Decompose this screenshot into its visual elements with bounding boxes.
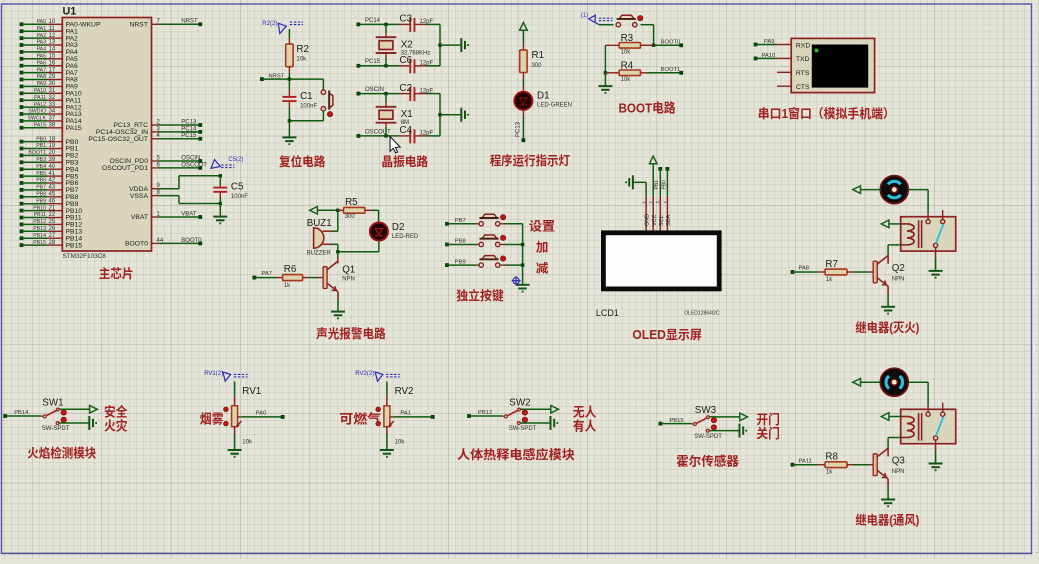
svg-text:PA8: PA8 bbox=[799, 266, 810, 272]
pot bottom lead bbox=[234, 427, 236, 434]
wire net PB6 pin 42 bbox=[20, 181, 24, 185]
svg-text:火焰检测模块: 火焰检测模块 bbox=[27, 445, 96, 460]
resistor R6 1k bbox=[252, 276, 256, 280]
wire net PA5 pin 15 bbox=[20, 57, 24, 61]
svg-text:PA15: PA15 bbox=[34, 123, 46, 129]
svg-text:霍尔传感器: 霍尔传感器 bbox=[676, 454, 739, 469]
svg-text:22: 22 bbox=[49, 212, 56, 218]
wire net PA6 pin 16 bbox=[20, 64, 24, 68]
wire net OSCIN pin 5 bbox=[152, 160, 159, 162]
LED D1 LED-GREEN bbox=[514, 92, 532, 110]
relay coil bbox=[907, 417, 914, 438]
transistor Q3 NPN bbox=[873, 454, 877, 476]
svg-text:OLED显示屏: OLED显示屏 bbox=[632, 328, 702, 342]
collector wire bbox=[887, 448, 889, 456]
svg-text:PA8: PA8 bbox=[37, 74, 47, 80]
wire net SWDIO pin 34 bbox=[20, 112, 24, 116]
svg-text:PA10: PA10 bbox=[34, 88, 46, 94]
svg-text:OSCIN: OSCIN bbox=[181, 155, 200, 161]
wire net PA4 pin 14 bbox=[20, 50, 24, 54]
svg-text:D1: D1 bbox=[537, 91, 550, 102]
svg-text:42: 42 bbox=[49, 178, 56, 184]
svg-text:BOOT0: BOOT0 bbox=[125, 241, 148, 248]
BOOT select button bbox=[599, 24, 613, 26]
svg-text:C6: C6 bbox=[400, 55, 413, 66]
svg-text:PB15: PB15 bbox=[33, 240, 46, 246]
svg-text:PC14: PC14 bbox=[365, 18, 381, 24]
svg-text:PC15: PC15 bbox=[365, 59, 381, 65]
svg-text:人体热释电感应模块: 人体热释电感应模块 bbox=[457, 447, 575, 462]
ground of alarm circuit bbox=[331, 312, 345, 319]
resistor R4 10k bbox=[605, 72, 619, 74]
svg-text:R6: R6 bbox=[284, 264, 297, 275]
wire net PB9 pin 46 bbox=[20, 202, 24, 206]
svg-text:43: 43 bbox=[49, 185, 56, 191]
resistor R2 10k bbox=[288, 29, 290, 38]
capacitor C1 100nF bbox=[288, 79, 290, 90]
wire motor to relay bbox=[909, 381, 929, 383]
ground below relay contact bbox=[929, 464, 943, 471]
node PC15 bbox=[357, 64, 361, 68]
wire net PB14 pin 27 bbox=[20, 236, 24, 240]
wire net BOOT1 pin 20 bbox=[20, 154, 24, 158]
push button K2 bbox=[479, 242, 483, 246]
wire motor to relay bbox=[909, 189, 929, 191]
svg-text:12: 12 bbox=[49, 33, 56, 39]
svg-text:X1: X1 bbox=[401, 109, 413, 120]
svg-text:25: 25 bbox=[49, 219, 56, 225]
svg-text:28: 28 bbox=[49, 240, 56, 246]
wire net PA10 to TXD bbox=[754, 57, 758, 61]
wire net PA1 pin 11 bbox=[20, 29, 24, 33]
capacitor C6 12pF bbox=[399, 65, 411, 67]
wire net SWCLK pin 37 bbox=[20, 119, 24, 123]
crystal X1 8M bbox=[385, 94, 387, 103]
svg-text:R1: R1 bbox=[532, 50, 545, 61]
power terminal left of R5 bbox=[310, 207, 318, 215]
svg-text:PB3: PB3 bbox=[36, 157, 46, 163]
svg-text:10k: 10k bbox=[621, 50, 632, 56]
throw 1 wire to power arrow bbox=[521, 408, 551, 410]
svg-text:可燃气: 可燃气 bbox=[339, 411, 381, 426]
wire NRST to reset button bbox=[289, 78, 323, 80]
svg-text:NPN: NPN bbox=[892, 469, 905, 475]
svg-text:D2: D2 bbox=[392, 222, 405, 233]
pin CTS stub bbox=[777, 85, 791, 87]
svg-text:8M: 8M bbox=[401, 120, 409, 126]
capacitor C2 12pF bbox=[399, 93, 411, 95]
svg-text:PA7: PA7 bbox=[37, 67, 47, 73]
svg-text:GND: GND bbox=[645, 214, 651, 226]
wire button to C1 bottom bbox=[322, 111, 324, 121]
svg-text:16: 16 bbox=[49, 60, 56, 66]
blue probe label C5(2) bbox=[211, 160, 220, 169]
resistor R5 300 bbox=[336, 209, 339, 212]
LED D2 LED-RED bbox=[370, 222, 388, 240]
ground of BOOT circuit bbox=[604, 73, 606, 86]
transistor Q1 NPN bbox=[337, 252, 339, 258]
wire net PA9 pin 30 bbox=[20, 85, 24, 89]
wiper wire to PA0 bbox=[238, 416, 242, 418]
svg-text:PB12: PB12 bbox=[33, 219, 46, 225]
wire R3 to R4 rail bbox=[604, 45, 606, 73]
svg-text:39: 39 bbox=[49, 157, 56, 163]
common key rail bbox=[522, 224, 524, 284]
capacitor C4 12pF bbox=[399, 135, 411, 137]
pot wiper arrow bbox=[389, 421, 394, 426]
svg-text:32.768KHz: 32.768KHz bbox=[401, 50, 431, 56]
svg-text:10k: 10k bbox=[242, 440, 253, 446]
wire net PB12 pin 25 bbox=[20, 223, 24, 227]
wire net PB14 bbox=[3, 414, 7, 418]
ground of reset circuit bbox=[282, 137, 296, 144]
ground below relay contact bbox=[929, 271, 943, 278]
ground below RV2 bbox=[380, 450, 394, 457]
svg-text:R2: R2 bbox=[296, 44, 309, 55]
wire net PA8 pin 29 bbox=[20, 78, 24, 82]
svg-text:1k: 1k bbox=[826, 470, 833, 476]
svg-text:PA3: PA3 bbox=[37, 40, 47, 46]
svg-text:开门: 开门 bbox=[756, 412, 780, 427]
mouse cursor bbox=[390, 137, 400, 154]
wire relay common to ground bbox=[935, 440, 937, 450]
OLED pin stubs bbox=[645, 196, 647, 231]
wire net PB7 pin 43 bbox=[20, 188, 24, 192]
svg-text:17: 17 bbox=[49, 67, 56, 73]
wire net PB10 pin 21 bbox=[20, 209, 24, 213]
svg-text:PA2: PA2 bbox=[37, 33, 47, 39]
wire net PB11 pin 22 bbox=[20, 216, 24, 220]
svg-text:300: 300 bbox=[345, 214, 356, 220]
svg-text:PB1: PB1 bbox=[654, 180, 660, 190]
svg-text:PB10: PB10 bbox=[33, 205, 46, 211]
svg-text:PC15: PC15 bbox=[181, 133, 197, 139]
svg-text:SW3: SW3 bbox=[695, 405, 717, 416]
relay contact pins bbox=[926, 412, 930, 416]
svg-text:NRST: NRST bbox=[181, 19, 198, 25]
node SCL bbox=[658, 167, 662, 171]
relay switch blade bbox=[936, 417, 943, 436]
svg-text:PA15: PA15 bbox=[66, 125, 82, 132]
relay coil top lead to power bbox=[901, 416, 907, 418]
svg-text:13: 13 bbox=[49, 40, 56, 46]
svg-text:10k: 10k bbox=[621, 77, 632, 83]
wire net PB13 pin 26 bbox=[20, 229, 24, 233]
svg-text:PB9: PB9 bbox=[36, 198, 46, 204]
svg-text:复位电路: 复位电路 bbox=[279, 154, 326, 169]
emitter wire to ground bbox=[887, 286, 889, 294]
throw 1 wire to power arrow bbox=[59, 408, 89, 410]
wire net PB15 bbox=[659, 422, 663, 426]
svg-text:BOOT0: BOOT0 bbox=[181, 238, 202, 244]
svg-text:PA1: PA1 bbox=[37, 26, 47, 32]
switch SW1 SW-SPDT bbox=[43, 415, 46, 418]
chip U1 STM32F103C8 bbox=[62, 18, 151, 252]
svg-text:20: 20 bbox=[49, 150, 56, 156]
svg-text:串口1窗口（模拟手机端）: 串口1窗口（模拟手机端） bbox=[758, 106, 895, 121]
svg-text:RTS: RTS bbox=[796, 70, 810, 77]
svg-text:加: 加 bbox=[536, 241, 549, 255]
svg-text:OSCOUT: OSCOUT bbox=[181, 162, 207, 168]
ground below RV1 bbox=[228, 450, 242, 457]
svg-text:声光报警电路: 声光报警电路 bbox=[316, 326, 386, 341]
svg-text:RV2: RV2 bbox=[395, 386, 414, 397]
svg-text:PB6: PB6 bbox=[36, 178, 46, 184]
svg-text:火灾: 火灾 bbox=[104, 419, 128, 434]
resistor R7 1k bbox=[791, 270, 795, 274]
svg-text:PC14: PC14 bbox=[181, 126, 197, 132]
virtual terminal window bbox=[791, 38, 874, 92]
svg-text:VCC: VCC bbox=[652, 214, 658, 226]
svg-text:SW-SPDT: SW-SPDT bbox=[694, 434, 722, 440]
resistor R8 1k bbox=[791, 463, 795, 467]
svg-text:PB11: PB11 bbox=[34, 212, 46, 218]
power terminal left of motor bbox=[853, 186, 861, 194]
power terminal VCC bbox=[649, 156, 657, 164]
svg-text:PA11: PA11 bbox=[799, 458, 812, 464]
svg-text:独立按键: 独立按键 bbox=[456, 288, 504, 303]
svg-text:SWCLK: SWCLK bbox=[28, 116, 47, 122]
resistor R1 300 bbox=[522, 30, 524, 43]
pot adjust dots bbox=[224, 407, 229, 412]
svg-text:41: 41 bbox=[49, 171, 56, 177]
wire net BOOT0 pin 44 bbox=[152, 242, 159, 244]
wire net PA3 pin 13 bbox=[20, 43, 24, 47]
svg-text:R2(2): R2(2) bbox=[262, 21, 277, 27]
node NRST bbox=[260, 77, 264, 81]
svg-text:PA0: PA0 bbox=[256, 411, 267, 417]
svg-text:PB1: PB1 bbox=[36, 143, 46, 149]
svg-text:R7: R7 bbox=[825, 259, 838, 270]
node OSCIN bbox=[357, 92, 361, 96]
svg-text:关门: 关门 bbox=[756, 426, 780, 441]
svg-text:PA0: PA0 bbox=[37, 19, 47, 25]
svg-text:X2: X2 bbox=[401, 39, 413, 50]
svg-text:PA6: PA6 bbox=[37, 60, 47, 66]
ground of keys bbox=[516, 285, 530, 292]
ground below Q3 bbox=[881, 500, 895, 507]
svg-text:Q3: Q3 bbox=[892, 456, 906, 467]
svg-text:C4: C4 bbox=[400, 125, 413, 136]
wire D2 to collector rail bbox=[378, 241, 380, 252]
pin RTS stub bbox=[777, 71, 791, 73]
wire net PC14 pin 3 bbox=[152, 131, 159, 133]
svg-text:300: 300 bbox=[532, 63, 543, 69]
node SDA bbox=[666, 167, 670, 171]
svg-text:PB13: PB13 bbox=[33, 226, 46, 232]
relay contact pins bbox=[926, 220, 930, 224]
svg-text:11: 11 bbox=[49, 26, 56, 32]
svg-text:RV2(2): RV2(2) bbox=[355, 371, 374, 377]
wire to ground rail bbox=[439, 94, 441, 136]
pot bottom lead bbox=[386, 427, 388, 434]
svg-text:PB7: PB7 bbox=[36, 185, 46, 191]
relay RL of Q3 bbox=[901, 409, 956, 443]
svg-text:PA7: PA7 bbox=[262, 271, 273, 277]
svg-text:RV1: RV1 bbox=[242, 386, 261, 397]
motor of Q3 relay bbox=[880, 368, 908, 396]
wire net PB7 bbox=[445, 222, 449, 226]
svg-text:44: 44 bbox=[157, 238, 164, 244]
svg-text:主芯片: 主芯片 bbox=[99, 266, 134, 281]
svg-text:R8: R8 bbox=[825, 452, 838, 463]
power terminal left of motor bbox=[853, 378, 861, 386]
svg-text:15: 15 bbox=[49, 54, 56, 60]
svg-text:烟雾: 烟雾 bbox=[200, 411, 224, 426]
pot adjust dots bbox=[376, 407, 381, 412]
wire button to BOOT0 node bbox=[641, 24, 654, 26]
resistor R3 10k bbox=[605, 44, 619, 46]
svg-text:SW2: SW2 bbox=[509, 398, 530, 409]
svg-text:PB15: PB15 bbox=[66, 242, 83, 249]
throw 2 wire to rail terminal bbox=[709, 430, 738, 432]
svg-text:1k: 1k bbox=[826, 277, 833, 283]
svg-text:C3: C3 bbox=[400, 14, 413, 25]
svg-text:PB4: PB4 bbox=[36, 164, 46, 170]
svg-text:PB0: PB0 bbox=[36, 136, 46, 142]
relay coil top lead to power bbox=[901, 223, 907, 225]
relay coil bbox=[907, 224, 914, 245]
svg-text:33: 33 bbox=[49, 102, 56, 108]
wire net OSCOUT pin 6 bbox=[152, 167, 159, 169]
svg-text:SDA: SDA bbox=[666, 214, 672, 226]
wire relay common to ground bbox=[935, 248, 937, 258]
svg-text:C1: C1 bbox=[300, 91, 313, 102]
OLED screen body bbox=[603, 233, 719, 289]
svg-text:CTS: CTS bbox=[796, 84, 810, 91]
svg-text:PA11: PA11 bbox=[34, 95, 46, 101]
svg-text:C5(2): C5(2) bbox=[228, 157, 243, 163]
LCD1 OLED module bbox=[645, 182, 647, 195]
svg-text:无人: 无人 bbox=[573, 404, 597, 419]
reset push button bbox=[321, 90, 325, 94]
svg-text:45: 45 bbox=[49, 192, 56, 198]
svg-text:32: 32 bbox=[49, 95, 56, 101]
wire net VBAT pin 1 bbox=[152, 216, 159, 218]
relay coil bottom lead bbox=[901, 244, 907, 246]
wire net PB5 pin 41 bbox=[20, 174, 24, 178]
svg-text:19: 19 bbox=[49, 143, 56, 149]
transistor Q2 NPN bbox=[873, 261, 877, 283]
wiper wire to PA1 bbox=[390, 416, 394, 418]
svg-text:继电器(灭火): 继电器(灭火) bbox=[855, 320, 919, 335]
svg-text:LED-GREEN: LED-GREEN bbox=[537, 102, 572, 108]
blue origin marker bbox=[512, 276, 521, 285]
svg-text:18: 18 bbox=[49, 136, 56, 142]
wire net PB3 pin 39 bbox=[20, 160, 24, 164]
ground left of OLED bbox=[626, 175, 633, 189]
wire net PB12 bbox=[467, 414, 471, 418]
wire R5 to D2 bbox=[378, 210, 380, 222]
wire net NRST pin 7 bbox=[152, 23, 159, 25]
svg-text:BOOT电路: BOOT电路 bbox=[619, 100, 676, 115]
ground below Q2 bbox=[881, 307, 895, 314]
svg-text:31: 31 bbox=[49, 88, 56, 94]
pot wiper arrow bbox=[237, 421, 242, 426]
svg-text:减: 减 bbox=[536, 262, 549, 276]
wire net PB8 pin 45 bbox=[20, 195, 24, 199]
relay coil bottom lead bbox=[901, 437, 907, 439]
svg-text:RXD: RXD bbox=[796, 42, 810, 49]
power terminal above R1 bbox=[520, 23, 528, 31]
svg-text:100nF: 100nF bbox=[300, 104, 317, 110]
svg-text:SWDIO: SWDIO bbox=[28, 109, 46, 115]
svg-text:R5: R5 bbox=[345, 197, 358, 208]
svg-text:SCL: SCL bbox=[659, 215, 665, 226]
wire to ground rail bbox=[439, 24, 441, 65]
svg-text:PA12: PA12 bbox=[34, 102, 46, 108]
svg-text:PC13: PC13 bbox=[516, 121, 522, 137]
relay switch blade bbox=[936, 224, 943, 243]
switch SW2 SW-SPDT bbox=[504, 415, 507, 418]
svg-text:PA5: PA5 bbox=[37, 54, 47, 60]
svg-text:14: 14 bbox=[49, 47, 56, 53]
svg-text:程序运行指示灯: 程序运行指示灯 bbox=[490, 153, 571, 168]
svg-text:12pF: 12pF bbox=[420, 88, 434, 94]
svg-text:BUZ1: BUZ1 bbox=[307, 218, 332, 229]
capacitor C5 100nF bbox=[219, 174, 222, 177]
svg-text:继电器(通风): 继电器(通风) bbox=[855, 513, 919, 528]
svg-text:1k: 1k bbox=[284, 283, 291, 289]
svg-text:有人: 有人 bbox=[573, 419, 597, 434]
capacitor C3 12pF bbox=[399, 23, 411, 25]
svg-text:BOOT1: BOOT1 bbox=[661, 67, 681, 73]
wire net PA7 pin 17 bbox=[20, 71, 24, 75]
svg-text:PB8: PB8 bbox=[36, 192, 46, 198]
svg-text:Q2: Q2 bbox=[892, 263, 905, 274]
svg-text:PA9: PA9 bbox=[37, 81, 47, 87]
svg-text:PB14: PB14 bbox=[33, 233, 46, 239]
svg-text:LCD1: LCD1 bbox=[596, 308, 619, 318]
node BOOT0 bbox=[654, 44, 682, 46]
ground below C5 bbox=[213, 217, 227, 224]
svg-text:U1: U1 bbox=[63, 6, 77, 18]
svg-text:PC13: PC13 bbox=[181, 119, 197, 125]
svg-text:37: 37 bbox=[49, 116, 56, 122]
wire net PB4 pin 40 bbox=[20, 167, 24, 171]
svg-text:OLED12864I2C: OLED12864I2C bbox=[684, 311, 720, 317]
wire VSSA pin 8 bbox=[152, 195, 159, 197]
svg-text:12pF: 12pF bbox=[420, 61, 434, 67]
svg-text:34: 34 bbox=[49, 109, 56, 115]
wire net PA12 pin 33 bbox=[20, 105, 24, 109]
wire emitter Q1 to ground bbox=[337, 292, 339, 299]
wire net PA15 pin 38 bbox=[20, 126, 24, 130]
svg-text:OSCOUT_PD1: OSCOUT_PD1 bbox=[102, 165, 148, 172]
wire net PC15 pin 4 bbox=[152, 138, 159, 140]
svg-text:BOOT0: BOOT0 bbox=[661, 40, 681, 46]
throw 2 wire to rail terminal bbox=[59, 422, 88, 424]
svg-text:BUZZER: BUZZER bbox=[307, 251, 332, 257]
svg-text:LED-RED: LED-RED bbox=[392, 234, 419, 240]
node PC14 bbox=[357, 23, 361, 27]
svg-text:30: 30 bbox=[49, 81, 56, 87]
throw 1 wire to power arrow bbox=[710, 416, 740, 418]
throw 2 wire to rail terminal bbox=[520, 422, 549, 424]
svg-text:安全: 安全 bbox=[104, 404, 128, 419]
svg-text:38: 38 bbox=[49, 123, 56, 129]
svg-text:TXD: TXD bbox=[796, 56, 810, 63]
svg-text:RV1(2): RV1(2) bbox=[204, 371, 223, 377]
wire VDDA pin 9 bbox=[152, 188, 159, 190]
collector wire bbox=[887, 255, 889, 263]
svg-text:Q1: Q1 bbox=[342, 265, 355, 276]
svg-text:NRST: NRST bbox=[129, 22, 148, 29]
svg-text:SW-SPDT: SW-SPDT bbox=[42, 426, 70, 432]
switch SW3 SW-SPDT bbox=[693, 423, 696, 426]
svg-text:10: 10 bbox=[49, 19, 56, 25]
svg-text:晶振电路: 晶振电路 bbox=[381, 154, 428, 169]
